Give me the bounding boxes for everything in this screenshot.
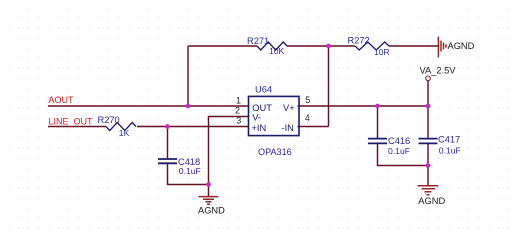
capacitor C417 xyxy=(419,135,461,156)
resistor R272 xyxy=(348,36,390,58)
svg-text:LINE_OUT: LINE_OUT xyxy=(49,117,94,127)
wire ground stub center xyxy=(208,185,210,197)
capacitor C418 xyxy=(158,157,201,176)
node junction LINE_OUT/C418 xyxy=(165,124,170,129)
svg-text:AOUT: AOUT xyxy=(49,95,75,105)
svg-text:+IN: +IN xyxy=(252,123,267,133)
wire C417 top tap xyxy=(427,106,429,139)
svg-text:C416: C416 xyxy=(388,136,410,146)
svg-text:4: 4 xyxy=(305,113,310,123)
capacitor C416 xyxy=(368,136,410,156)
op-amp U64 body xyxy=(249,84,300,157)
svg-text:0.1uF: 0.1uF xyxy=(179,166,201,176)
node junction V-/C418/AGND xyxy=(206,182,211,187)
ground AGND bottom right xyxy=(418,186,446,206)
wire feedback vertical left xyxy=(187,46,189,106)
wire VA_2.5V down xyxy=(427,81,429,106)
ground AGND bottom center xyxy=(198,197,225,216)
svg-text:AGND: AGND xyxy=(198,206,225,216)
wire between R271 and R272 xyxy=(287,45,355,47)
wire feedback vertical right xyxy=(328,46,330,127)
node junction C416/C417/AGND xyxy=(426,163,431,168)
node junction AOUT/feedback xyxy=(186,104,191,109)
op-amp U64 pin names xyxy=(252,103,295,133)
node junction VA/C417 xyxy=(426,104,431,109)
svg-text:OUT: OUT xyxy=(252,103,272,113)
wire tap to C418 top xyxy=(167,127,169,160)
svg-text:V+: V+ xyxy=(283,103,295,113)
svg-text:OPA316: OPA316 xyxy=(258,147,292,157)
svg-text:2: 2 xyxy=(235,106,240,116)
svg-text:AGND: AGND xyxy=(418,196,445,206)
svg-text:AGND: AGND xyxy=(448,41,475,51)
svg-text:5: 5 xyxy=(305,95,310,105)
node junction V+/C416 xyxy=(375,104,380,109)
wire pin 5 to VA node xyxy=(298,105,429,107)
node junction R271/R272/feedback xyxy=(326,44,331,49)
svg-text:V-: V- xyxy=(252,113,261,123)
svg-text:0.1uF: 0.1uF xyxy=(439,145,461,155)
svg-text:U64: U64 xyxy=(255,84,272,94)
svg-text:C417: C417 xyxy=(438,135,460,145)
op-amp U64 pin numbers xyxy=(235,95,310,126)
svg-text:10K: 10K xyxy=(269,46,285,56)
wire AOUT net horizontal to pin 1 xyxy=(48,105,249,107)
power symbol VA_2.5V xyxy=(420,65,457,80)
wire LINE_OUT to R270 xyxy=(48,126,106,128)
wire pin 2 down to ground node xyxy=(209,117,249,185)
ground AGND top right (sideways) xyxy=(438,37,474,58)
wire ground stub right xyxy=(427,166,429,186)
wire pin 4 to feedback xyxy=(298,126,329,128)
svg-text:-IN: -IN xyxy=(282,123,294,133)
wire tap to C416 top xyxy=(377,106,379,139)
wire top to R271 xyxy=(188,45,257,47)
wire R270 to pin 3 xyxy=(137,126,249,128)
svg-text:1K: 1K xyxy=(119,128,130,138)
svg-text:0.1uF: 0.1uF xyxy=(388,146,410,156)
resistor R271 xyxy=(247,36,287,56)
svg-text:R272: R272 xyxy=(348,36,370,46)
svg-text:R271: R271 xyxy=(247,36,269,46)
svg-text:R270: R270 xyxy=(98,115,120,125)
wire C418 bottom to ground node xyxy=(168,163,209,184)
wire C416 bottom to node xyxy=(378,143,429,165)
svg-text:10R: 10R xyxy=(374,47,390,57)
wire R272 to AGND top right xyxy=(389,45,438,47)
svg-text:1: 1 xyxy=(236,96,241,106)
svg-text:VA_2.5V: VA_2.5V xyxy=(420,65,457,75)
svg-text:3: 3 xyxy=(236,116,241,126)
wire C417 bottom to ground node xyxy=(427,143,429,165)
resistor R270 xyxy=(98,115,137,138)
